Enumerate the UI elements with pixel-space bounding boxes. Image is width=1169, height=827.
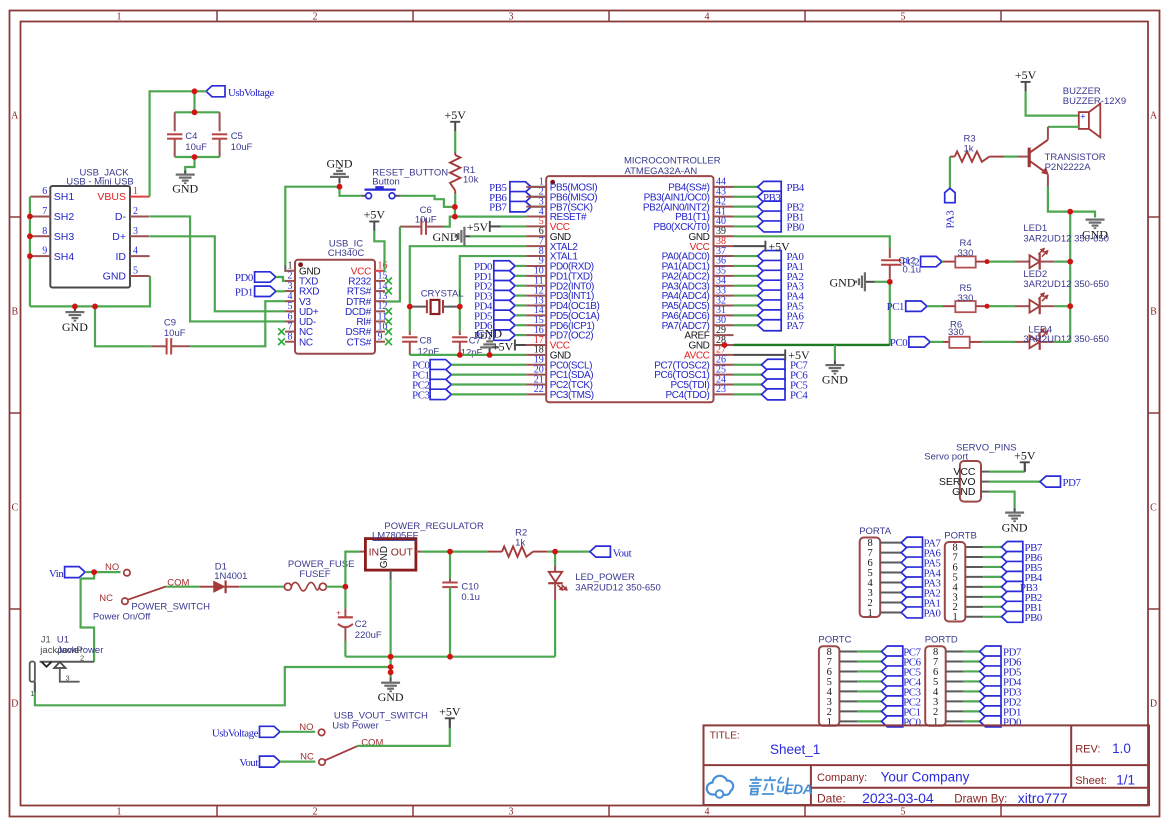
pin 6 SH1 of USB_JACK bbox=[30, 196, 50, 198]
svg-text:8: 8 bbox=[42, 226, 47, 237]
svg-text:+5V: +5V bbox=[1015, 68, 1037, 82]
node junction top of C4C5 bbox=[192, 109, 198, 115]
net flag PB3 bbox=[1002, 581, 1023, 592]
svg-text:1: 1 bbox=[953, 612, 958, 623]
svg-text:8: 8 bbox=[288, 332, 293, 343]
wire down to C9 bbox=[95, 306, 152, 346]
svg-text:GND: GND bbox=[1002, 521, 1028, 535]
pin 13 DTR# of CH340C bbox=[375, 300, 385, 302]
pin 18 GND of MCU bbox=[526, 354, 546, 356]
svg-text:xitro777: xitro777 bbox=[1018, 790, 1068, 806]
capacitor C6 bbox=[400, 226, 422, 228]
fuse POWER_FUSE FUSEF bbox=[284, 583, 291, 590]
net flag PB3 bbox=[734, 196, 758, 198]
node junction reset2 bbox=[452, 214, 458, 220]
pin 3 D+ of USB_JACK bbox=[130, 235, 150, 237]
net flag PC6 bbox=[734, 374, 762, 376]
svg-text:1k: 1k bbox=[964, 143, 974, 154]
svg-text:+: + bbox=[336, 608, 341, 617]
pin 1 GND of CH340C bbox=[285, 270, 295, 272]
pin 28 GND of MCU bbox=[714, 344, 734, 346]
wire +5V to R1 bbox=[454, 131, 456, 153]
svg-text:GND: GND bbox=[830, 275, 856, 289]
node junction LED1 rail bbox=[1067, 259, 1073, 265]
net flag PC3 bbox=[882, 686, 903, 697]
wire regulator gnd down bbox=[390, 570, 392, 579]
no-connect X on CH340 right pin row 2 bbox=[385, 288, 392, 295]
node junction gnd net 2 bbox=[388, 664, 394, 670]
svg-text:PA3: PA3 bbox=[944, 210, 956, 228]
wire UsbVoltage to NO bbox=[280, 731, 315, 733]
resistor R4 bbox=[943, 261, 955, 263]
svg-text:PD0: PD0 bbox=[235, 272, 253, 284]
svg-text:PA0: PA0 bbox=[924, 607, 941, 619]
svg-text:1N4001: 1N4001 bbox=[214, 571, 247, 582]
svg-text:D: D bbox=[1150, 699, 1157, 710]
wire servo VCC to +5V bbox=[990, 471, 1025, 473]
svg-text:CRYSTAL: CRYSTAL bbox=[421, 289, 464, 300]
svg-text:Sheet:: Sheet: bbox=[1075, 775, 1107, 787]
switch USB_VOUT_SWITCH NC contact bbox=[319, 759, 325, 765]
node junction emitter gnd bbox=[1067, 209, 1073, 215]
svg-text:USB - Mini USB: USB - Mini USB bbox=[66, 176, 134, 187]
pin 9 SH4 of USB_JACK bbox=[30, 255, 50, 257]
net flag PD3 bbox=[980, 686, 1001, 697]
capacitor C8 bbox=[409, 332, 411, 336]
LED LED2 3AR2UD12 350-650 bbox=[1015, 305, 1030, 307]
resistor R1 bbox=[454, 153, 456, 156]
pin 12 DCD# of CH340C bbox=[375, 310, 385, 312]
net flag PB4 bbox=[734, 186, 758, 188]
svg-text:PC4: PC4 bbox=[790, 389, 808, 401]
node junction C7 rail bbox=[457, 352, 463, 358]
svg-text:5: 5 bbox=[133, 266, 138, 277]
pin 15 PD6(ICP1) of MCU bbox=[526, 324, 546, 326]
svg-text:SH2: SH2 bbox=[54, 211, 75, 223]
svg-text:330: 330 bbox=[958, 293, 974, 304]
svg-text:Date:: Date: bbox=[817, 792, 846, 806]
crystal CRYSTAL bbox=[410, 306, 427, 308]
wire Vin down to jack bbox=[81, 572, 95, 662]
node junction gnd net 3 bbox=[388, 669, 394, 675]
svg-text:GND: GND bbox=[952, 486, 976, 498]
voltage regulator POWER_REGULATOR LM7805EF bbox=[360, 551, 366, 553]
svg-text:C: C bbox=[11, 503, 18, 514]
pin 39 GND of MCU bbox=[714, 235, 734, 237]
svg-text:NC: NC bbox=[299, 337, 313, 348]
svg-text:1/1: 1/1 bbox=[1116, 772, 1135, 787]
no-connect X on CH340 right pin row 6 bbox=[385, 328, 392, 335]
pin 20 PC1(SDA) of MCU bbox=[526, 374, 546, 376]
wire VBUS up to UsbVoltage bbox=[150, 91, 195, 196]
svg-text:CTS#: CTS# bbox=[347, 337, 372, 348]
svg-text:+5V: +5V bbox=[768, 239, 790, 253]
pin 22 PC3(TMS) of MCU bbox=[526, 393, 546, 395]
capacitor C4 bbox=[174, 112, 176, 131]
wire C6 to DTR bbox=[385, 227, 400, 302]
pin 2 TXD of CH340C bbox=[285, 280, 295, 282]
wire to GND right of transistor bbox=[1070, 212, 1095, 218]
svg-text:1: 1 bbox=[117, 12, 122, 23]
svg-text:OUT: OUT bbox=[391, 546, 414, 558]
svg-text:TITLE:: TITLE: bbox=[710, 730, 740, 741]
pin 30 PA7(ADC7) of MCU bbox=[714, 324, 734, 326]
no-connect X on CH340 right pin row 7 bbox=[385, 338, 392, 345]
svg-text:GND: GND bbox=[172, 182, 198, 196]
svg-text:330: 330 bbox=[948, 327, 964, 338]
svg-text:3: 3 bbox=[133, 226, 138, 237]
pin GND of SERVO_PINS bbox=[981, 491, 990, 493]
svg-text:+5V: +5V bbox=[444, 108, 466, 122]
net flag PA4 bbox=[901, 567, 922, 578]
net flag UsbVoltage bbox=[206, 86, 225, 97]
net flag PB6 bbox=[1002, 551, 1023, 562]
switch POWER_SWITCH lever to COM bbox=[128, 586, 166, 599]
wire gnd junction to CH340 GND pin bbox=[285, 187, 339, 266]
net flag PA3 bbox=[901, 577, 922, 588]
wire LED rail vertical bbox=[1069, 212, 1071, 342]
wire COM to +5V bbox=[358, 727, 450, 746]
svg-text:PORTA: PORTA bbox=[859, 526, 892, 537]
svg-text:Button: Button bbox=[372, 176, 399, 187]
svg-text:PD1: PD1 bbox=[235, 286, 253, 298]
node junction GND symbol usb bbox=[72, 304, 78, 310]
wire servo GND down bbox=[990, 492, 1015, 508]
svg-text:+5V: +5V bbox=[439, 705, 461, 719]
svg-text:7: 7 bbox=[42, 206, 47, 217]
net flag PA1 bbox=[901, 597, 922, 608]
svg-text:PC1: PC1 bbox=[887, 301, 904, 313]
IC U? USB_IC CH340C box bbox=[295, 260, 375, 354]
svg-text:UsbVoltage: UsbVoltage bbox=[212, 727, 259, 739]
LED LED_POWER 3AR2UD12 350-650 bbox=[554, 552, 556, 566]
svg-text:SH3: SH3 bbox=[54, 231, 75, 243]
pushbutton RESET_BUTTON bbox=[362, 195, 366, 197]
svg-text:2: 2 bbox=[80, 654, 84, 663]
svg-text:9: 9 bbox=[42, 246, 47, 257]
wire +5V to VCC pin16 bbox=[374, 231, 385, 271]
pin 1 PB5(MOSI) of MCU bbox=[526, 186, 546, 188]
svg-text:LED_POWER: LED_POWER bbox=[575, 572, 635, 583]
net flag PD1 bbox=[980, 706, 1001, 717]
svg-text:C: C bbox=[1150, 503, 1157, 514]
pin 11 PD2(INT0) of MCU bbox=[526, 285, 546, 287]
net flag PA6 bbox=[901, 547, 922, 558]
wire to GND below C4C5 bbox=[185, 157, 194, 173]
svg-text:C5: C5 bbox=[231, 131, 243, 142]
svg-text:5: 5 bbox=[901, 807, 906, 818]
net flag PB7 bbox=[1002, 542, 1023, 553]
node junction crystal right bbox=[457, 304, 463, 310]
node junction reset1 bbox=[452, 204, 458, 210]
wire emitter down to gnd rail bbox=[1048, 187, 1070, 212]
pin 44 PB4(SS#) of MCU bbox=[714, 186, 734, 188]
net flag PA7 bbox=[734, 324, 758, 326]
wire C9 to V3 pin of CH340 bbox=[190, 301, 285, 346]
node junction crystal left bbox=[407, 304, 413, 310]
pin 16 PD7(OC2) of MCU bbox=[526, 334, 546, 336]
node junction SH4 bbox=[27, 253, 33, 259]
switch POWER_SWITCH NO contact bbox=[94, 571, 120, 573]
svg-text:Vout: Vout bbox=[613, 547, 632, 559]
svg-text:PB0: PB0 bbox=[787, 221, 804, 233]
wire LED2 to rail bbox=[1054, 305, 1070, 307]
ground GND below C4C5 bbox=[184, 171, 186, 174]
svg-text:Sheet_1: Sheet_1 bbox=[770, 742, 820, 757]
svg-text:PORTC: PORTC bbox=[818, 635, 851, 646]
svg-text:EDA: EDA bbox=[784, 781, 813, 797]
svg-text:+5V: +5V bbox=[467, 220, 489, 234]
node junction bottom of C4C5 bbox=[192, 154, 198, 160]
wire button to reset junction bbox=[401, 196, 455, 207]
svg-text:SH4: SH4 bbox=[54, 251, 75, 263]
pin 41 PB1(T1) of MCU bbox=[714, 216, 734, 218]
net flag PB1 bbox=[1002, 601, 1023, 612]
pin 5 GND of USB_JACK bbox=[130, 275, 150, 277]
net flag PA5 bbox=[901, 557, 922, 568]
svg-text:5: 5 bbox=[901, 12, 906, 23]
svg-text:D-: D- bbox=[115, 211, 127, 223]
svg-text:GND: GND bbox=[62, 320, 88, 334]
svg-text:B: B bbox=[1150, 307, 1157, 318]
wire bottom rail power bbox=[345, 656, 555, 658]
wire R1 to junction bbox=[454, 194, 456, 207]
wire D+ to UD+ bbox=[150, 236, 285, 311]
svg-text:10uF: 10uF bbox=[164, 328, 186, 339]
wire D- to UD- bbox=[150, 216, 285, 321]
header PORTB box bbox=[945, 542, 966, 622]
svg-text:D+: D+ bbox=[112, 231, 126, 243]
svg-text:BUZZER-12X9: BUZZER-12X9 bbox=[1063, 96, 1126, 107]
wire gnd junction down to button bbox=[340, 187, 362, 196]
svg-text:+5V: +5V bbox=[492, 340, 514, 354]
svg-text:PB7: PB7 bbox=[489, 202, 507, 214]
ground GND power rail bbox=[381, 682, 400, 693]
pin 25 PC6(TOSC1) of MCU bbox=[714, 374, 734, 376]
node junction Vout bbox=[552, 549, 558, 555]
pin 34 PA3(ADC3) of MCU bbox=[714, 285, 734, 287]
svg-text:10k: 10k bbox=[463, 174, 479, 185]
net flag PC5 bbox=[882, 666, 903, 677]
pin 21 PC2(TCK) of MCU bbox=[526, 384, 546, 386]
svg-text:0.1u: 0.1u bbox=[461, 592, 480, 603]
net flag PD4 bbox=[980, 676, 1001, 687]
pin 5 UD+ of CH340C bbox=[285, 310, 295, 312]
svg-text:LM7805EF: LM7805EF bbox=[372, 530, 419, 541]
svg-text:Power On/Off: Power On/Off bbox=[93, 612, 151, 623]
pin 40 PB0(XCK/T0) of MCU bbox=[714, 225, 734, 227]
svg-text:GND: GND bbox=[379, 546, 390, 568]
svg-text:NC: NC bbox=[99, 593, 113, 604]
transistor TRANSISTOR P2N2222A bbox=[1028, 148, 1031, 167]
pin 35 PA2(ADC2) of MCU bbox=[714, 275, 734, 277]
svg-text:Servo port: Servo port bbox=[924, 451, 968, 462]
net flag PB2 bbox=[1002, 591, 1023, 602]
capacitor C9 bbox=[152, 345, 167, 347]
node junction below C12 bbox=[887, 279, 893, 285]
resistor R3 bbox=[950, 156, 955, 158]
LED LED4 3AR2UD12 350-650 bbox=[1015, 341, 1030, 343]
svg-text:Vin: Vin bbox=[49, 568, 64, 580]
svg-text:1: 1 bbox=[117, 807, 122, 818]
no-connect X on CH340 left pin row 7 bbox=[278, 338, 285, 345]
pin 2 PB6(MISO) of MCU bbox=[526, 196, 546, 198]
node junction UsbVoltage bbox=[192, 88, 198, 94]
svg-text:A: A bbox=[1150, 111, 1158, 122]
pin 36 PA1(ADC1) of MCU bbox=[714, 265, 734, 267]
svg-text:3: 3 bbox=[66, 673, 70, 682]
svg-text:PC0: PC0 bbox=[903, 716, 920, 728]
node junction reset gnd bbox=[337, 184, 343, 190]
svg-text:FUSEF: FUSEF bbox=[299, 569, 330, 580]
svg-text:3AR2UD12 350-650: 3AR2UD12 350-650 bbox=[575, 583, 661, 594]
svg-text:C4: C4 bbox=[185, 131, 197, 142]
capacitor C5 bbox=[219, 112, 221, 131]
wire OUT to junction bbox=[416, 551, 422, 553]
svg-text:Usb Power: Usb Power bbox=[332, 720, 378, 731]
wire PD0 flag to TXD bbox=[276, 277, 285, 281]
wire buzzer pin2 to collector bbox=[1048, 126, 1079, 128]
net flag PC5 bbox=[734, 383, 762, 385]
svg-text:A: A bbox=[11, 111, 19, 122]
no-connect X on CH340 left pin row 6 bbox=[278, 328, 285, 335]
wire Vout to NC bbox=[280, 760, 315, 762]
pin 10 DSR# of CH340C bbox=[375, 331, 385, 333]
svg-text:C9: C9 bbox=[164, 317, 176, 328]
wire crystal gnd rail to MCU pin18 bbox=[410, 354, 526, 356]
svg-text:1k: 1k bbox=[515, 537, 525, 548]
net flag PD0 bbox=[980, 716, 1001, 727]
pin 9 PD0(RXD) of MCU bbox=[526, 265, 546, 267]
svg-text:NO: NO bbox=[299, 722, 313, 733]
net flag PC0 bbox=[882, 716, 903, 727]
pin 8 XTAL1 of MCU bbox=[526, 255, 546, 257]
wire out rail to R2 bbox=[450, 550, 488, 552]
pin 29 AREF of MCU bbox=[714, 334, 734, 336]
pin 13 PD4(OC1B) of MCU bbox=[526, 304, 546, 306]
pin VCC of SERVO_PINS bbox=[981, 471, 990, 473]
net flag PB2 bbox=[734, 206, 758, 208]
svg-text:Vout: Vout bbox=[239, 757, 258, 769]
wire long gnd from jack bbox=[35, 667, 391, 705]
svg-text:1.0: 1.0 bbox=[1112, 741, 1131, 756]
wire R6 to LED4 bbox=[981, 341, 1015, 343]
net flag PA0 bbox=[901, 607, 922, 618]
svg-text:NO: NO bbox=[105, 562, 119, 573]
switch USB_VOUT_SWITCH lever bbox=[325, 746, 358, 760]
header SERVO_PINS box bbox=[960, 461, 981, 502]
svg-text:10uF: 10uF bbox=[231, 142, 253, 153]
svg-text:IN: IN bbox=[369, 546, 380, 558]
svg-text:C8: C8 bbox=[420, 336, 432, 347]
svg-text:B: B bbox=[11, 307, 18, 318]
node junction after R4 bbox=[985, 259, 990, 264]
net flag PA0 bbox=[734, 255, 758, 257]
net flag PB1 bbox=[734, 215, 758, 217]
svg-text:3AR2UD12 350-650: 3AR2UD12 350-650 bbox=[1023, 334, 1109, 345]
svg-text:4: 4 bbox=[705, 807, 710, 818]
no-connect X on CH340 right pin row 4 bbox=[385, 308, 392, 315]
pin 33 PA4(ADC4) of MCU bbox=[714, 295, 734, 297]
svg-text:NC: NC bbox=[300, 751, 314, 762]
pin 38 VCC of MCU bbox=[714, 245, 734, 247]
svg-text:2023-03-04: 2023-03-04 bbox=[862, 790, 934, 806]
net flag PD5 bbox=[980, 666, 1001, 677]
header PORTD box bbox=[925, 646, 946, 726]
pin 7 SH2 of USB_JACK bbox=[30, 215, 50, 217]
net flag PC6 bbox=[882, 656, 903, 667]
svg-text:UsbVoltage: UsbVoltage bbox=[228, 87, 274, 99]
wire R5 to LED2 bbox=[987, 305, 1015, 307]
resistor R2 bbox=[488, 551, 502, 553]
pin 6 GND of MCU bbox=[526, 235, 546, 237]
svg-text:PD7: PD7 bbox=[1063, 477, 1082, 489]
ground GND below servo bbox=[1014, 508, 1016, 512]
pin 42 PB2(AIN0/INT2) of MCU bbox=[714, 206, 734, 208]
power +5V at MCU pin27 AVCC bbox=[734, 354, 786, 356]
node junction SH3 bbox=[27, 233, 33, 239]
wire SH pins left rail to GND net bbox=[29, 197, 31, 307]
pin SERVO of SERVO_PINS bbox=[981, 481, 990, 483]
svg-text:Your Company: Your Company bbox=[881, 769, 970, 784]
pin 5 VCC of MCU bbox=[526, 225, 546, 227]
svg-text:6: 6 bbox=[42, 186, 47, 197]
pin 7 XTAL2 of MCU bbox=[526, 245, 546, 247]
node junction regulator in bbox=[343, 584, 349, 590]
resistor R5 bbox=[943, 305, 955, 307]
net flag PC1 bbox=[882, 706, 903, 717]
net flag PA3 vertical bbox=[945, 188, 955, 203]
pin 2 D- of USB_JACK bbox=[130, 215, 150, 217]
ground GND below USB jack bbox=[74, 306, 76, 311]
svg-text:+5V: +5V bbox=[364, 208, 386, 222]
wire pin28 gnd branch bbox=[834, 345, 836, 360]
net flag PD6 bbox=[980, 656, 1001, 667]
svg-text:GND: GND bbox=[378, 690, 404, 704]
capacitor C2 electrolytic bbox=[344, 587, 346, 609]
net flag PD2 bbox=[980, 696, 1001, 707]
wire junction up to IN bbox=[345, 552, 360, 587]
node junction LED2 rail bbox=[1067, 303, 1073, 309]
net flag PB5 bbox=[1002, 561, 1023, 572]
net flag PC7 bbox=[734, 364, 762, 366]
svg-text:PORTD: PORTD bbox=[925, 635, 958, 646]
net flag PB0 bbox=[734, 225, 758, 227]
no-connect X on CH340 right pin row 5 bbox=[385, 318, 392, 325]
svg-text:PC3: PC3 bbox=[412, 389, 429, 401]
pin 15 R232 of CH340C bbox=[375, 280, 385, 282]
svg-text:1: 1 bbox=[30, 689, 34, 698]
svg-text:12pF: 12pF bbox=[461, 347, 483, 358]
wire junction to junction2 bbox=[454, 207, 456, 217]
svg-text:9: 9 bbox=[378, 332, 383, 343]
wire R3 left down to PA3 flag bbox=[949, 157, 951, 189]
net flag PA1 bbox=[734, 265, 758, 267]
capacitor C12 bbox=[889, 248, 891, 259]
resistor R6 bbox=[943, 341, 949, 343]
pin 43 PB3(AIN1/OC0) of MCU bbox=[714, 196, 734, 198]
node junction SH2 bbox=[27, 214, 33, 220]
pin 7 NC of CH340C bbox=[285, 331, 295, 333]
wire reset to MCU pin4 bbox=[455, 216, 526, 218]
net flag PC4 bbox=[734, 393, 762, 395]
svg-text:PB4: PB4 bbox=[787, 182, 805, 194]
pin 3 PB7(SCK) of MCU bbox=[526, 206, 546, 208]
svg-text:22: 22 bbox=[534, 384, 544, 395]
power +5V at MCU pin38 bbox=[734, 245, 766, 247]
pin 3 RXD of CH340C bbox=[285, 290, 295, 292]
pin 9 CTS# of CH340C bbox=[375, 341, 385, 343]
